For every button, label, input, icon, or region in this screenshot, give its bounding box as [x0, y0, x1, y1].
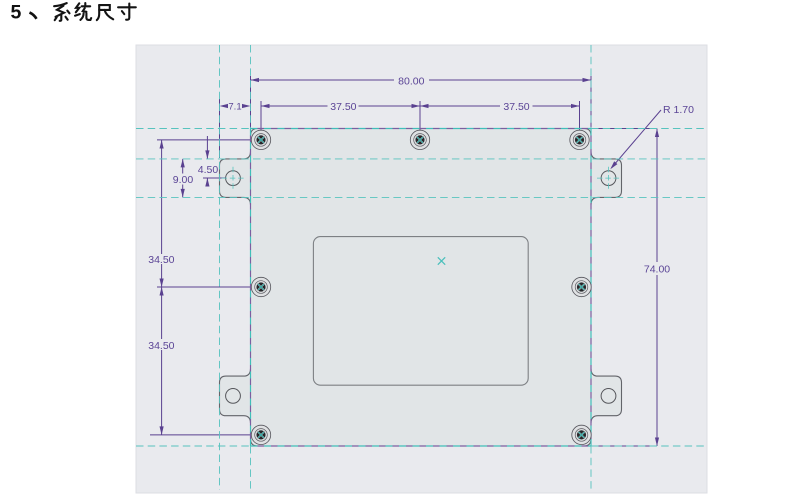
- svg-text:7.1: 7.1: [228, 102, 241, 113]
- svg-text:5: 5: [11, 2, 22, 24]
- svg-text:37.50: 37.50: [503, 101, 529, 113]
- svg-text:9.00: 9.00: [173, 174, 194, 186]
- svg-text:34.50: 34.50: [148, 254, 174, 266]
- svg-text:4.50: 4.50: [198, 164, 219, 176]
- svg-text:R 1.70: R 1.70: [663, 104, 694, 116]
- svg-text:37.50: 37.50: [330, 101, 356, 113]
- svg-text:74.00: 74.00: [644, 264, 670, 276]
- svg-text:80.00: 80.00: [398, 76, 424, 88]
- svg-text:34.50: 34.50: [148, 340, 174, 352]
